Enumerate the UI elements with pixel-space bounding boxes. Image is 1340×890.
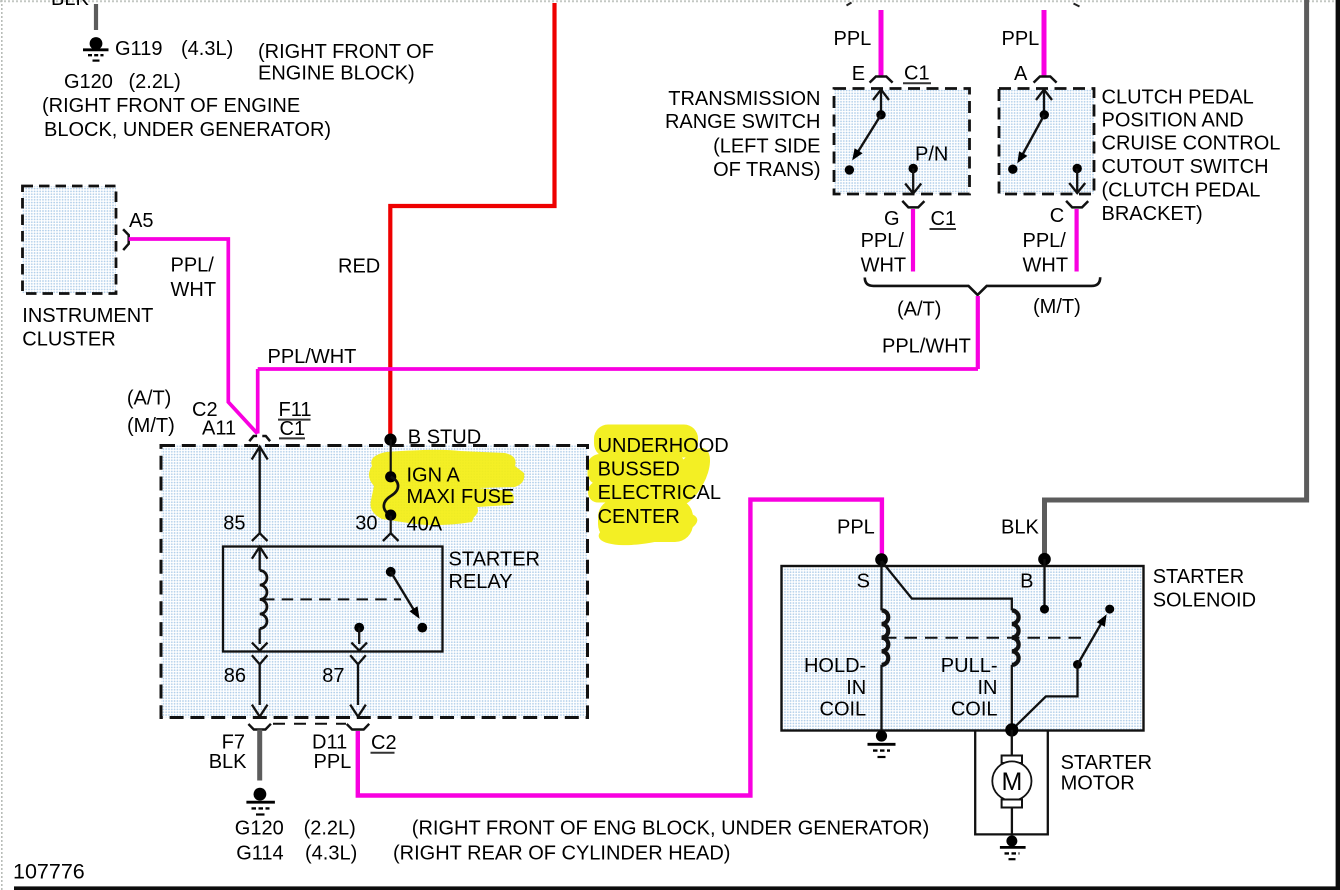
wire PPL/WHT long horizontal xyxy=(258,367,978,371)
starter motor M xyxy=(992,730,1031,835)
svg-text:PPL/: PPL/ xyxy=(171,255,215,277)
svg-text:(RIGHT FRONT OF ENGINE: (RIGHT FRONT OF ENGINE xyxy=(42,95,300,117)
svg-text:E: E xyxy=(852,63,865,85)
svg-text:CLUSTER: CLUSTER xyxy=(22,329,115,351)
svg-text:C2: C2 xyxy=(371,732,397,754)
tick artifact left xyxy=(847,3,852,6)
pin A connector arc xyxy=(1034,77,1057,83)
svg-text:85: 85 xyxy=(223,513,245,535)
relay pin 87 dot xyxy=(354,623,364,633)
starter solenoid box xyxy=(782,566,1144,731)
solenoid switch zigzag link xyxy=(1012,665,1078,730)
bottom black border bar xyxy=(14,886,1340,890)
hold-in coil xyxy=(880,561,882,610)
svg-text:C: C xyxy=(1050,205,1064,227)
svg-text:86: 86 xyxy=(224,665,246,687)
svg-text:SOLENOID: SOLENOID xyxy=(1153,589,1256,611)
wire 85 vertical xyxy=(259,447,261,533)
svg-text:HOLD-: HOLD- xyxy=(804,655,866,677)
relay switch contact dot xyxy=(417,623,427,633)
pull-in coil xyxy=(1012,610,1019,665)
svg-text:PULL-: PULL- xyxy=(941,655,998,677)
svg-text:WHT: WHT xyxy=(861,255,907,277)
wire PPL (transmission range switch) xyxy=(879,10,884,77)
svg-text:(2.2L): (2.2L) xyxy=(129,71,181,93)
wire PPL/WHT from instrument cluster xyxy=(129,239,258,434)
scan border top xyxy=(0,0,1340,2)
svg-text:POSITION AND: POSITION AND xyxy=(1102,109,1244,131)
chevron 85 above relay xyxy=(252,533,268,541)
wire RED xyxy=(390,3,554,437)
wire BLK gray stub top-left xyxy=(94,4,98,30)
svg-text:PPL: PPL xyxy=(1002,28,1040,50)
svg-text:UNDERHOOD: UNDERHOOD xyxy=(598,435,729,457)
svg-text:COIL: COIL xyxy=(951,699,998,721)
instrument cluster box xyxy=(23,186,117,294)
wire PPL/WHT drop to F11 xyxy=(256,369,260,434)
pin 87 arrow to UBEC edge xyxy=(350,705,366,717)
trans P/N contact dot and arrow xyxy=(909,164,918,173)
svg-text:G120: G120 xyxy=(64,71,113,93)
svg-text:87: 87 xyxy=(322,665,344,687)
pin F7 female bracket xyxy=(248,724,271,730)
relay switch pivot dot (30) xyxy=(386,567,396,577)
pin F11 chevron inside UBEC xyxy=(252,447,268,460)
svg-text:STARTER: STARTER xyxy=(1061,752,1153,774)
wire BLK gray from top right to solenoid B xyxy=(1045,0,1307,555)
wire PPL (clutch switch) xyxy=(1042,10,1047,77)
svg-text:M: M xyxy=(1001,768,1022,796)
svg-text:INSTRUMENT: INSTRUMENT xyxy=(22,305,153,327)
right black border bar xyxy=(1336,0,1340,890)
svg-text:C1: C1 xyxy=(904,63,930,85)
ground G119 symbol xyxy=(83,37,109,61)
pin G connector bracket xyxy=(902,201,924,208)
wire from S to pull-in coil xyxy=(882,561,1012,610)
svg-text:PPL/: PPL/ xyxy=(1023,230,1067,252)
svg-text:BLK: BLK xyxy=(209,751,247,773)
relay switch arm with arrowhead xyxy=(391,572,415,611)
trans switch arm with arrowhead xyxy=(858,115,882,153)
clutch switch pivot dot xyxy=(1040,110,1049,119)
solenoid switch fixed dot xyxy=(1105,605,1114,614)
wire BLK gray from F7 xyxy=(257,730,262,781)
relay pin 87 chevron inside (down) xyxy=(351,643,367,651)
svg-text:OF TRANS): OF TRANS) xyxy=(713,159,820,181)
UBEC box xyxy=(161,446,588,718)
relay pin 86 chevron inside (down) xyxy=(252,643,268,651)
pin 86 Y connector below relay xyxy=(252,655,268,664)
svg-text:G119: G119 xyxy=(115,38,162,60)
svg-text:(4.3L): (4.3L) xyxy=(305,843,357,865)
pin C connector bracket xyxy=(1066,201,1088,208)
svg-text:BLOCK, UNDER GENERATOR): BLOCK, UNDER GENERATOR) xyxy=(44,119,331,141)
svg-text:PPL/: PPL/ xyxy=(861,230,905,252)
svg-text:CENTER: CENTER xyxy=(598,506,680,528)
clutch switch arm with arrowhead xyxy=(1022,115,1045,157)
B STUD dot xyxy=(384,434,396,446)
pull-in coil junction dot xyxy=(1005,723,1018,736)
chevron 30 above relay xyxy=(383,533,399,541)
svg-text:30: 30 xyxy=(355,513,377,535)
brace joining A/T and M/T wires xyxy=(865,277,1100,295)
trans switch lower contact dot xyxy=(845,165,854,174)
pin A5 bracket xyxy=(123,229,129,250)
svg-text:107776: 107776 xyxy=(13,860,85,884)
svg-text:A11: A11 xyxy=(202,418,236,440)
wire PPL from D11 to starter solenoid S xyxy=(358,500,882,796)
svg-text:S: S xyxy=(857,571,870,593)
svg-text:COIL: COIL xyxy=(820,699,867,721)
wire PPL/WHT from pin C xyxy=(1074,209,1078,272)
pin E connector arc xyxy=(870,77,893,83)
svg-text:G: G xyxy=(884,208,900,230)
pin 87 Y connector below relay xyxy=(350,655,366,664)
trans switch pivot dot xyxy=(876,110,885,119)
svg-text:PPL: PPL xyxy=(314,751,352,773)
svg-text:BLK: BLK xyxy=(1001,517,1039,539)
scan border left xyxy=(1,0,3,890)
svg-text:IGN A: IGN A xyxy=(407,464,461,486)
svg-text:STARTER: STARTER xyxy=(1153,566,1245,588)
svg-text:40A: 40A xyxy=(407,514,443,536)
svg-text:PPL: PPL xyxy=(837,517,875,539)
svg-text:IN: IN xyxy=(846,677,866,699)
fuse IGN A MAXI FUSE 40A xyxy=(384,440,398,534)
svg-text:C1: C1 xyxy=(931,208,957,230)
pin F11 connector arc xyxy=(249,436,270,441)
svg-text:WHT: WHT xyxy=(1023,255,1069,277)
svg-text:MAXI FUSE: MAXI FUSE xyxy=(407,486,515,508)
svg-text:PPL: PPL xyxy=(834,28,872,50)
B contact dot xyxy=(1040,605,1049,614)
transmission range switch box xyxy=(834,89,970,195)
svg-text:(RIGHT FRONT OF: (RIGHT FRONT OF xyxy=(258,41,434,63)
svg-text:PPL/WHT: PPL/WHT xyxy=(268,346,357,368)
svg-text:A: A xyxy=(1014,63,1028,85)
solenoid linkage dashed line xyxy=(884,637,1089,639)
svg-text:ENGINE BLOCK): ENGINE BLOCK) xyxy=(258,63,415,85)
svg-text:BRACKET): BRACKET) xyxy=(1102,203,1203,225)
svg-text:CLUTCH PEDAL: CLUTCH PEDAL xyxy=(1102,86,1254,108)
svg-text:(CLUTCH PEDAL: (CLUTCH PEDAL xyxy=(1102,179,1261,201)
solenoid switch arm with arrowhead xyxy=(1073,660,1082,669)
ground (starter motor) xyxy=(1000,836,1026,860)
clutch right contact dot and arrow xyxy=(1073,164,1082,173)
svg-text:G120: G120 xyxy=(235,818,284,840)
svg-text:(RIGHT FRONT OF ENG BLOCK, UND: (RIGHT FRONT OF ENG BLOCK, UNDER GENERAT… xyxy=(412,818,929,840)
svg-text:RANGE SWITCH: RANGE SWITCH xyxy=(665,111,821,133)
svg-text:(RIGHT REAR OF CYLINDER HEAD): (RIGHT REAR OF CYLINDER HEAD) xyxy=(393,843,730,865)
ground (hold-in coil) xyxy=(868,730,896,757)
svg-text:(A/T): (A/T) xyxy=(127,388,171,410)
svg-text:BUSSED: BUSSED xyxy=(598,458,680,480)
clutch pedal switch box xyxy=(999,89,1094,195)
connector dashes between F7 and D11 xyxy=(273,723,346,725)
svg-text:B STUD: B STUD xyxy=(408,426,481,448)
svg-text:(A/T): (A/T) xyxy=(897,299,941,321)
terminal S dot xyxy=(875,553,888,566)
svg-text:G114: G114 xyxy=(236,843,283,865)
terminal B dot xyxy=(1038,553,1051,566)
fuse highlight yellow xyxy=(369,450,524,525)
svg-text:(2.2L): (2.2L) xyxy=(304,818,356,840)
UBEC highlight yellow (title) xyxy=(587,425,718,552)
svg-text:STARTER: STARTER xyxy=(449,549,541,571)
svg-text:(4.3L): (4.3L) xyxy=(181,38,233,60)
svg-text:(M/T): (M/T) xyxy=(1033,296,1081,318)
relay linkage dashed line xyxy=(263,598,401,600)
svg-text:MOTOR: MOTOR xyxy=(1061,772,1135,794)
svg-text:IN: IN xyxy=(978,677,998,699)
svg-text:A5: A5 xyxy=(129,210,153,232)
svg-text:CRUISE CONTROL: CRUISE CONTROL xyxy=(1102,133,1281,155)
svg-text:BLK: BLK xyxy=(51,0,89,10)
svg-text:(LEFT SIDE: (LEFT SIDE xyxy=(713,135,820,157)
clutch switch pin A chevron and line xyxy=(1036,90,1052,101)
svg-text:PPL/WHT: PPL/WHT xyxy=(882,336,971,358)
svg-text:RED: RED xyxy=(338,256,380,278)
wire B to fixed contact xyxy=(1043,559,1045,609)
svg-text:C1: C1 xyxy=(280,418,306,440)
trans switch pin E chevron and line xyxy=(873,90,889,101)
svg-text:(M/T): (M/T) xyxy=(127,415,175,437)
relay coil xyxy=(260,571,267,629)
svg-text:ELECTRICAL: ELECTRICAL xyxy=(598,482,721,504)
starter motor enclosure xyxy=(975,731,1048,835)
wire PPL/WHT from brace down xyxy=(976,296,980,369)
svg-text:TRANSMISSION: TRANSMISSION xyxy=(668,88,820,110)
clutch switch lower contact dot xyxy=(1008,165,1017,174)
ground G120 symbol xyxy=(246,788,275,815)
tick artifact right xyxy=(1074,4,1080,7)
svg-text:CUTOUT SWITCH: CUTOUT SWITCH xyxy=(1102,156,1269,178)
pin D11 female bracket xyxy=(347,724,370,730)
svg-text:RELAY: RELAY xyxy=(449,571,513,593)
starter relay box xyxy=(223,547,443,652)
svg-text:P/N: P/N xyxy=(915,144,948,166)
relay pin 85 chevron inside xyxy=(252,547,268,559)
pin 86 arrow to UBEC edge xyxy=(252,705,268,717)
svg-text:WHT: WHT xyxy=(171,279,217,301)
svg-text:B: B xyxy=(1020,571,1033,593)
wire PPL/WHT from pin G xyxy=(911,209,915,272)
